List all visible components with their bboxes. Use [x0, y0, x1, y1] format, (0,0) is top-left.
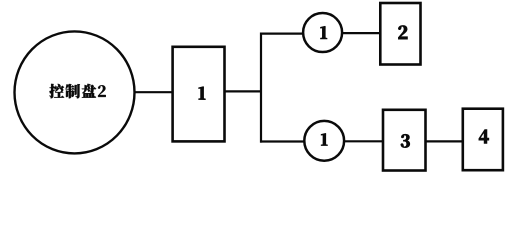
- connector circle 1 (top): [303, 13, 342, 52]
- wire: branch to top connector: [260, 32, 304, 34]
- wire: control box to block 1: [134, 91, 173, 93]
- label 1 (bottom connector): [321, 133, 327, 145]
- label 3: [401, 134, 410, 147]
- label 1: [199, 87, 205, 100]
- connector circle 1 (bottom): [304, 121, 344, 161]
- wire: bottom connector to block 3: [344, 140, 384, 142]
- block 3: [383, 110, 426, 171]
- block 2: [380, 3, 420, 65]
- block 1: [173, 47, 225, 142]
- label 控制盘2: [49, 84, 105, 98]
- block 4: [463, 109, 503, 171]
- wire: top connector to block 2: [342, 32, 381, 34]
- label 4: [479, 130, 489, 144]
- wire: branch to bottom connector: [260, 140, 305, 142]
- label 1 (top connector): [321, 26, 327, 38]
- wire: branch vertical: [260, 33, 262, 143]
- label 2: [398, 26, 407, 39]
- wire: block 1 to branch node: [225, 90, 263, 92]
- wire: block 3 to block 4: [426, 140, 464, 142]
- control box circle: 控制盘2: [15, 31, 135, 153]
